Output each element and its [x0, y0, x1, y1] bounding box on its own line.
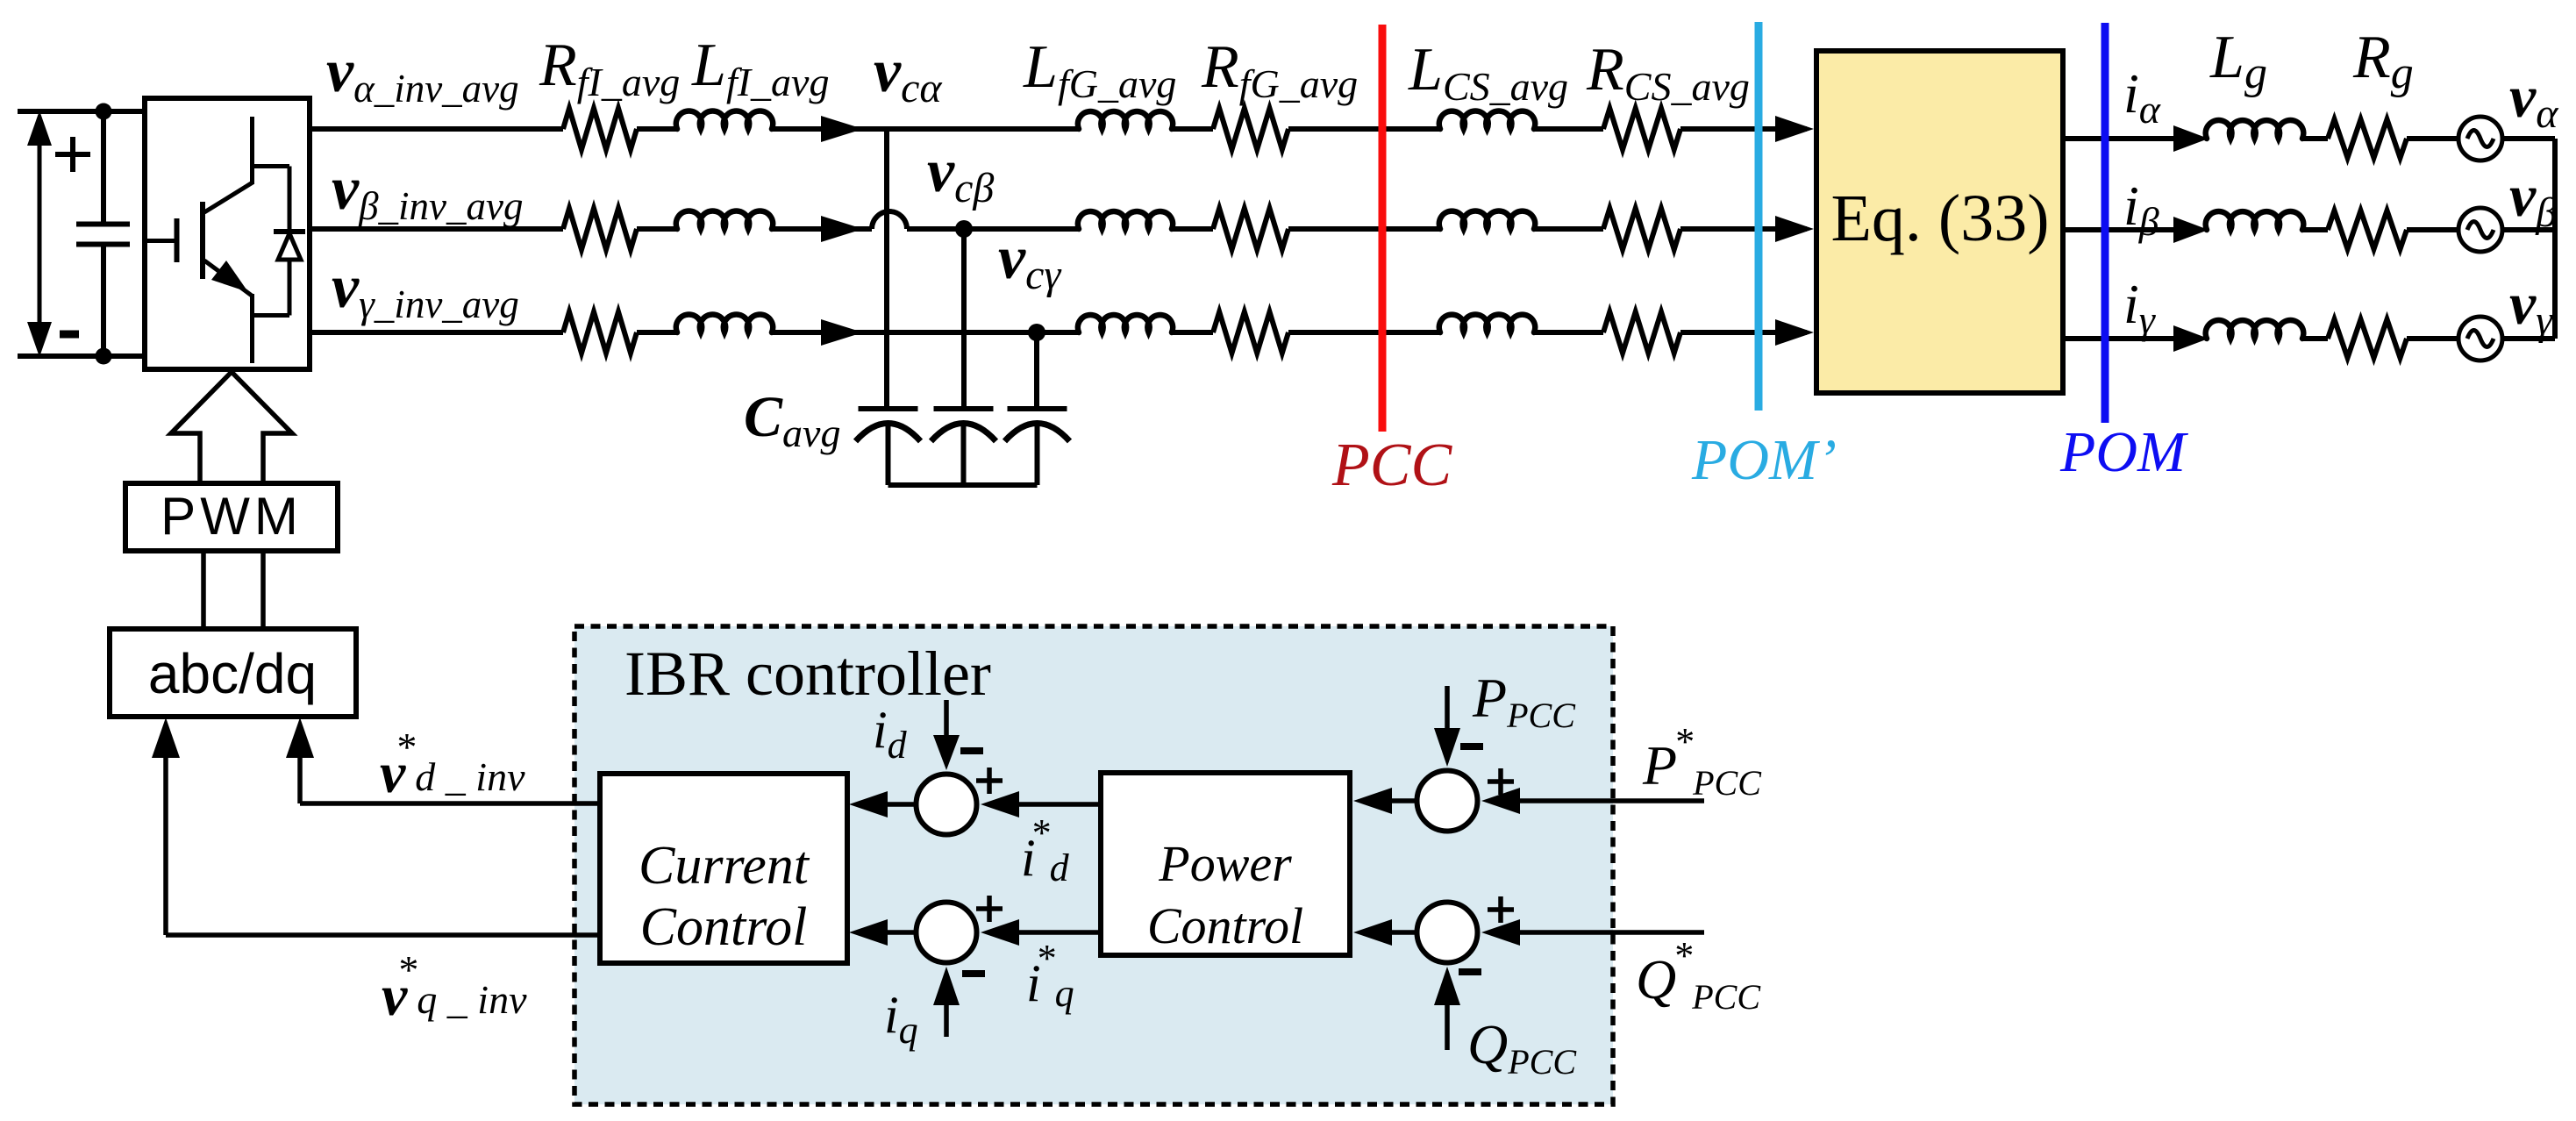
IGBT emitter diagonal [204, 261, 252, 296]
wire: node beta vertical [961, 229, 967, 407]
wire: capacitor bottom lead [101, 246, 106, 356]
freewheeling diode cathode bar [274, 229, 305, 234]
block: Current Control [600, 774, 847, 963]
wire: beta source to neutral [2501, 227, 2555, 232]
wire: gamma L_fG to R_fG [1172, 330, 1213, 335]
current arrow i_beta [2173, 217, 2209, 243]
wire: beta L_CS to R_CS [1534, 226, 1603, 232]
arrow: i_d into sum [933, 735, 960, 770]
POM boundary line (blue) [2101, 23, 2109, 423]
IGBT emitter arrow [211, 261, 248, 292]
resistor R_fG_avg (alpha) [1213, 109, 1288, 150]
capacitor C_avg plate (beta) [934, 406, 994, 411]
wire: capacitor stem (alpha) [886, 422, 891, 485]
wire: v*_q_inv horizontal [166, 932, 600, 938]
wire: alpha Lg-Rg [2302, 136, 2328, 141]
wire: capacitor top lead [101, 111, 106, 222]
resistor R_fI_avg (gamma) [563, 312, 637, 353]
block arrow: PWM to inverter [171, 372, 292, 484]
freewheeling diode triangle [278, 233, 301, 260]
arrow: into Current Control (q) [849, 919, 888, 946]
capacitor Cdc plate top [76, 222, 130, 227]
svg-text:Current: Current [639, 836, 810, 896]
IGBT bottom branch to diode [253, 313, 290, 318]
resistor R_fG_avg (gamma) [1213, 312, 1288, 353]
wire: beta node segment [907, 226, 1079, 232]
wire: Q sum to Power Control [1390, 930, 1415, 935]
wire: PWM-abc/dq left [201, 551, 206, 629]
wire: capacitor bank bottom bus [888, 482, 1038, 488]
wire: DC bus negative (bottom) [18, 353, 147, 359]
label: plus (i*_d input) [976, 778, 1003, 783]
wire: sum to Current Control (q) [886, 930, 914, 935]
wire: capacitor stem (gamma) [1035, 422, 1040, 485]
arrow: P* into sum [1481, 788, 1520, 814]
wire: gamma L_CS to R_CS [1534, 330, 1603, 335]
arrow: i_q into sum [933, 967, 960, 1005]
current arrow i_gamma [2173, 325, 2209, 352]
AC source v_gamma [2458, 317, 2502, 361]
wire: grid line alpha from Eq block [2063, 136, 2173, 141]
wire: i*_q from Power Control [1017, 930, 1101, 935]
inductor L_g (beta) [2206, 211, 2304, 230]
inductor L_CS_avg (gamma) [1439, 314, 1535, 332]
label: minus (Q_PCC input) [1459, 968, 1481, 975]
arrow: into Power Control (Q) [1353, 919, 1392, 946]
arrow: v*_d into abc/dq [286, 718, 314, 758]
label: minus sign (DC -) [60, 331, 79, 339]
inductor L_fI_avg (gamma) [676, 314, 773, 332]
wire: alpha into Eq block [1680, 126, 1807, 132]
svg-text:IBR controller: IBR controller [624, 639, 991, 709]
junction dot: DC bus bottom [96, 348, 112, 365]
wire: Q*_PCC input [1520, 930, 1704, 935]
label: plus (i*_q input) [976, 906, 1003, 911]
inductor L_fI_avg (alpha) [676, 111, 773, 129]
resistor R_g (beta) [2328, 211, 2407, 249]
arrow into Eq block (gamma) [1775, 319, 1814, 346]
wire: capacitor stem (beta) [961, 422, 967, 485]
wire: PWM-abc/dq right [260, 551, 266, 629]
svg-text:Control: Control [640, 897, 808, 957]
wire: alpha L_fG to R_fG [1172, 126, 1213, 132]
resistor R_g (alpha) [2328, 119, 2407, 158]
block: PWM [125, 483, 338, 551]
arrow: into Power Control (P) [1353, 788, 1392, 814]
svg-text:PWM: PWM [161, 487, 303, 546]
wire: gamma Lg-Rg [2302, 336, 2328, 341]
capacitor C_avg curved plate (alpha) [856, 424, 921, 442]
wire hop over alpha node (beta) [872, 211, 907, 229]
wire: gamma source to neutral [2501, 336, 2555, 341]
wire: alpha Rg to source [2407, 136, 2459, 141]
inductor L_g (alpha) [2206, 120, 2304, 139]
inverter block outline [145, 98, 310, 369]
wire: phase gamma from inverter [310, 330, 563, 335]
inductor L_fI_avg (beta) [676, 211, 773, 229]
current arrow on phase alpha [821, 116, 863, 142]
wire: alpha source to neutral [2501, 136, 2555, 141]
arrow: Q* into sum [1481, 919, 1520, 946]
wire: i*_d from Power Control [1017, 802, 1101, 807]
wire: i_d feedback into sum [944, 700, 949, 739]
wire: Q_PCC into sum [1445, 1002, 1450, 1050]
summing junction: current d-axis [917, 775, 977, 835]
svg-text:PCC: PCC [1331, 432, 1452, 499]
arrow into Eq block (beta) [1775, 216, 1814, 242]
wire: P_PCC into sum [1445, 686, 1450, 732]
svg-text:POM: POM [2059, 420, 2189, 484]
arrow: i*_q into sum [981, 919, 1019, 946]
capacitor C_avg plate (gamma) [1008, 406, 1067, 411]
inductor L_fG_avg (beta) [1078, 211, 1173, 229]
resistor R_CS_avg (alpha) [1603, 109, 1680, 150]
capacitor Cdc plate bottom [76, 242, 130, 247]
wire: phase beta from inverter [310, 226, 563, 232]
summing junction: current q-axis [917, 903, 977, 963]
capacitor C_avg curved plate (beta) [931, 424, 996, 442]
arrow into Eq block (alpha) [1775, 116, 1814, 142]
summing junction: power Q [1417, 903, 1478, 963]
inductor L_CS_avg (beta) [1439, 211, 1535, 229]
resistor R_g (gamma) [2328, 319, 2407, 358]
wire: beta into Eq block [1680, 226, 1807, 232]
junction dot: DC bus top [96, 104, 112, 120]
junction dot: node beta (v_c beta) [955, 220, 973, 238]
current arrow on phase gamma [821, 319, 863, 346]
label: plus (P* input) [1488, 779, 1514, 784]
IGBT top branch to diode [253, 164, 290, 168]
block: Power Control [1101, 773, 1350, 955]
wire: alpha to node [772, 126, 1079, 132]
label: minus (i_d input) [960, 747, 983, 754]
block: Eq. (33) [1816, 51, 2063, 393]
IGBT gate lead [147, 239, 175, 243]
wire: beta L_fG to R_fG [1172, 226, 1213, 232]
svg-text:Power: Power [1158, 835, 1292, 892]
IGBT body bar [200, 202, 205, 279]
arrow: i*_d into sum [981, 791, 1019, 818]
svg-text:Control: Control [1147, 897, 1303, 954]
capacitor C_avg curved plate (gamma) [1005, 424, 1070, 442]
inductor L_CS_avg (alpha) [1439, 111, 1535, 129]
wire: sum to Current Control (d) [886, 802, 914, 807]
capacitor C_avg plate (alpha) [859, 406, 918, 411]
wire: P*_PCC input [1520, 798, 1704, 803]
wire: i_q feedback into sum [944, 1002, 949, 1037]
arrow: Q_PCC into sum [1434, 967, 1460, 1005]
wire: alpha across PCC [1288, 126, 1440, 132]
wire: gamma into Eq block [1680, 330, 1807, 335]
arrow: v*_q into abc/dq [152, 718, 180, 758]
IBR controller dashed box [574, 626, 1613, 1104]
wire: beta to hop [772, 226, 872, 232]
wire: phase alpha from inverter [310, 126, 563, 132]
wire: beta R-L [637, 226, 677, 232]
IGBT collector lead [250, 117, 254, 184]
wire: node gamma vertical [1034, 332, 1039, 407]
resistor R_fG_avg (beta) [1213, 209, 1288, 250]
AC source v_beta [2458, 208, 2502, 252]
junction dot: node gamma (v_c gamma) [1028, 324, 1045, 341]
label: minus (i_q input) [962, 970, 985, 977]
POM' boundary line (cyan) [1755, 22, 1763, 411]
svg-text:Eq. (33): Eq. (33) [1830, 182, 2049, 255]
wire: gamma across PCC [1288, 330, 1440, 335]
IGBT collector diagonal [204, 182, 253, 212]
resistor R_fI_avg (alpha) [563, 109, 637, 150]
wire: grid line gamma from Eq block [2063, 336, 2173, 341]
svg-text:abc/dq: abc/dq [148, 642, 317, 705]
wire: beta Lg-Rg [2302, 227, 2328, 232]
wire: P sum to Power Control [1390, 798, 1415, 803]
resistor R_CS_avg (beta) [1603, 209, 1680, 250]
arrow: P_PCC into sum [1434, 728, 1460, 767]
wire: node alpha vertical [884, 129, 889, 407]
wire: alpha R-L [637, 126, 677, 132]
wire: DC bus positive (top) [18, 109, 147, 114]
wire: v*_d_inv vertical [297, 754, 303, 803]
current arrow i_alpha [2173, 125, 2209, 152]
wire: v*_q_inv vertical [163, 754, 168, 935]
wire: gamma Rg to source [2407, 336, 2459, 341]
wire: beta across PCC [1288, 226, 1440, 232]
inductor L_fG_avg (alpha) [1078, 111, 1173, 129]
inductor L_fG_avg (gamma) [1078, 315, 1173, 332]
resistor R_fI_avg (beta) [563, 209, 637, 250]
DC voltage measurement double arrow [38, 139, 42, 328]
block: abc/dq [110, 629, 356, 717]
svg-text:POM’: POM’ [1691, 428, 1837, 492]
inductor L_g (gamma) [2206, 320, 2304, 339]
freewheeling diode cathode lead [288, 167, 292, 231]
wire: grid neutral vertical [2552, 139, 2558, 339]
wire: gamma to node [772, 330, 1079, 335]
label: plus sign (DC +) [55, 152, 90, 157]
current arrow on phase beta [821, 216, 863, 242]
arrow: into Current Control (d) [849, 791, 888, 818]
IGBT gate bar [175, 218, 180, 262]
wire: gamma R-L [637, 330, 677, 335]
freewheeling diode anode lead [288, 258, 292, 316]
IGBT emitter lead [250, 294, 254, 363]
PCC boundary line (red) [1379, 25, 1387, 432]
resistor R_CS_avg (gamma) [1603, 312, 1680, 353]
summing junction: power P [1417, 771, 1478, 832]
wire: beta Rg to source [2407, 227, 2459, 232]
wire: alpha L_CS to R_CS [1534, 126, 1603, 132]
AC source v_alpha [2458, 117, 2502, 161]
wire: grid line beta from Eq block [2063, 227, 2173, 232]
wire: v*_d_inv horizontal [300, 801, 600, 806]
label: minus (P_PCC input) [1460, 743, 1483, 750]
label: plus (Q* input) [1488, 907, 1514, 912]
